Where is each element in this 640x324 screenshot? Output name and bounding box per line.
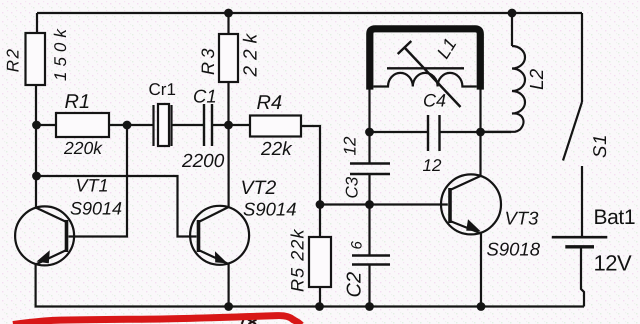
svg-text:R2: R2: [4, 48, 23, 73]
svg-text:C3: C3: [343, 176, 362, 198]
svg-text:Cr1: Cr1: [149, 80, 176, 99]
svg-text:2200: 2200: [181, 151, 225, 172]
svg-text:R5 22k: R5 22k: [288, 228, 308, 292]
svg-text:22k: 22k: [241, 28, 262, 78]
svg-text:S9014: S9014: [70, 199, 122, 219]
svg-text:VT2: VT2: [241, 177, 277, 199]
svg-text:12: 12: [341, 136, 360, 155]
svg-text:12V: 12V: [594, 251, 632, 276]
svg-text:150k: 150k: [51, 24, 70, 81]
svg-text:220k: 220k: [63, 138, 103, 158]
svg-text:R4: R4: [257, 92, 283, 114]
svg-text:L2: L2: [527, 68, 548, 90]
svg-text:S1: S1: [589, 134, 610, 158]
svg-text:R1: R1: [65, 91, 91, 113]
svg-text:R3: R3: [198, 45, 218, 75]
svg-text:12: 12: [423, 156, 442, 175]
svg-text:6: 6: [349, 241, 366, 250]
svg-text:22k: 22k: [260, 139, 293, 160]
svg-text:VT1: VT1: [76, 176, 109, 196]
svg-text:S9018: S9018: [487, 239, 541, 260]
svg-text:C4: C4: [423, 91, 446, 111]
svg-text:Bat1: Bat1: [594, 206, 636, 229]
svg-text:VT3: VT3: [505, 207, 540, 228]
svg-text:C1: C1: [193, 86, 217, 107]
svg-text:S9014: S9014: [243, 199, 297, 220]
svg-text:C2: C2: [344, 272, 366, 298]
